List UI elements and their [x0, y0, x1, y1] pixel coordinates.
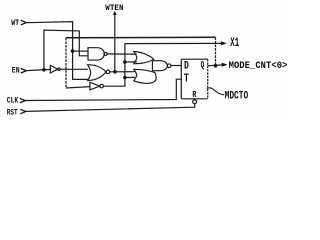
svg-text:MDCTO: MDCTO: [225, 91, 249, 103]
svg-text:RST: RST: [7, 107, 18, 117]
svg-text:EN: EN: [12, 66, 20, 76]
svg-text:D: D: [184, 60, 189, 73]
svg-text:MODE_CNT<0>: MODE_CNT<0>: [229, 60, 288, 72]
svg-text:WTEN: WTEN: [105, 3, 123, 13]
svg-text:WT: WT: [11, 18, 19, 28]
svg-text:Q: Q: [201, 60, 205, 71]
svg-text:X1: X1: [230, 36, 239, 50]
svg-text:R: R: [192, 90, 196, 100]
svg-text:T: T: [184, 73, 189, 86]
svg-text:CLK: CLK: [7, 96, 19, 106]
